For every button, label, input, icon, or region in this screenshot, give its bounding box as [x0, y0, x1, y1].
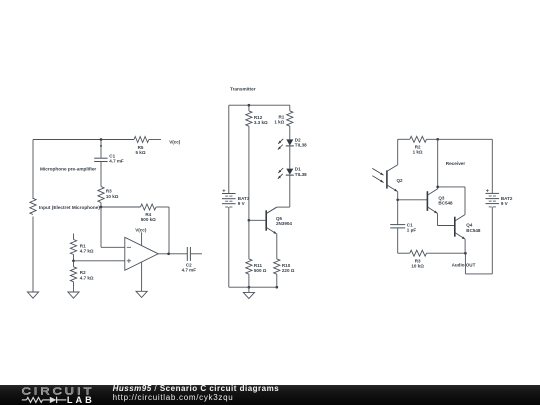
svg-text:4.7 kΩ: 4.7 kΩ — [80, 248, 94, 253]
svg-text:1 μF: 1 μF — [407, 227, 417, 232]
svg-text:1 kΩ: 1 kΩ — [274, 120, 284, 125]
svg-text:Audio OUT: Audio OUT — [452, 263, 476, 268]
svg-text:500 kΩ: 500 kΩ — [141, 217, 156, 222]
svg-text:9 V: 9 V — [238, 201, 245, 206]
svg-text:2N3904: 2N3904 — [276, 221, 292, 226]
svg-text:220 Ω: 220 Ω — [282, 268, 295, 273]
svg-text:10 kΩ: 10 kΩ — [106, 194, 119, 199]
svg-text:3.3 kΩ: 3.3 kΩ — [254, 120, 268, 125]
svg-text:http://circuitlab.com/cyk3zqu: http://circuitlab.com/cyk3zqu — [113, 393, 234, 402]
svg-text:TIL38: TIL38 — [295, 172, 307, 177]
svg-text:Hussm95 / Scenario C circuit d: Hussm95 / Scenario C circuit diagrams — [113, 385, 280, 393]
svg-text:Receiver: Receiver — [446, 161, 466, 166]
svg-text:4.7 mF: 4.7 mF — [182, 268, 197, 273]
svg-text:500 Ω: 500 Ω — [254, 268, 267, 273]
svg-text:Input (Electret Microphone): Input (Electret Microphone) — [39, 205, 100, 210]
svg-text:4.7 kΩ: 4.7 kΩ — [80, 275, 94, 280]
svg-text:Q2: Q2 — [397, 178, 404, 183]
svg-text:BC548: BC548 — [466, 228, 481, 233]
svg-text:10 kΩ: 10 kΩ — [411, 264, 424, 269]
svg-text:5 kΩ: 5 kΩ — [136, 150, 146, 155]
svg-text:1 kΩ: 1 kΩ — [413, 149, 423, 154]
svg-text:V(cc): V(cc) — [169, 140, 181, 145]
svg-text:TIL38: TIL38 — [295, 143, 307, 148]
svg-text:BC548: BC548 — [438, 201, 453, 206]
svg-text:9 V: 9 V — [501, 201, 508, 206]
svg-text:LAB: LAB — [67, 395, 95, 405]
svg-text:Microphone pre-amplifier: Microphone pre-amplifier — [40, 167, 96, 172]
svg-text:4.7 mF: 4.7 mF — [109, 159, 124, 164]
svg-text:V(cc): V(cc) — [135, 227, 147, 232]
svg-text:Transmitter: Transmitter — [230, 86, 256, 91]
svg-text:R3: R3 — [106, 189, 112, 194]
